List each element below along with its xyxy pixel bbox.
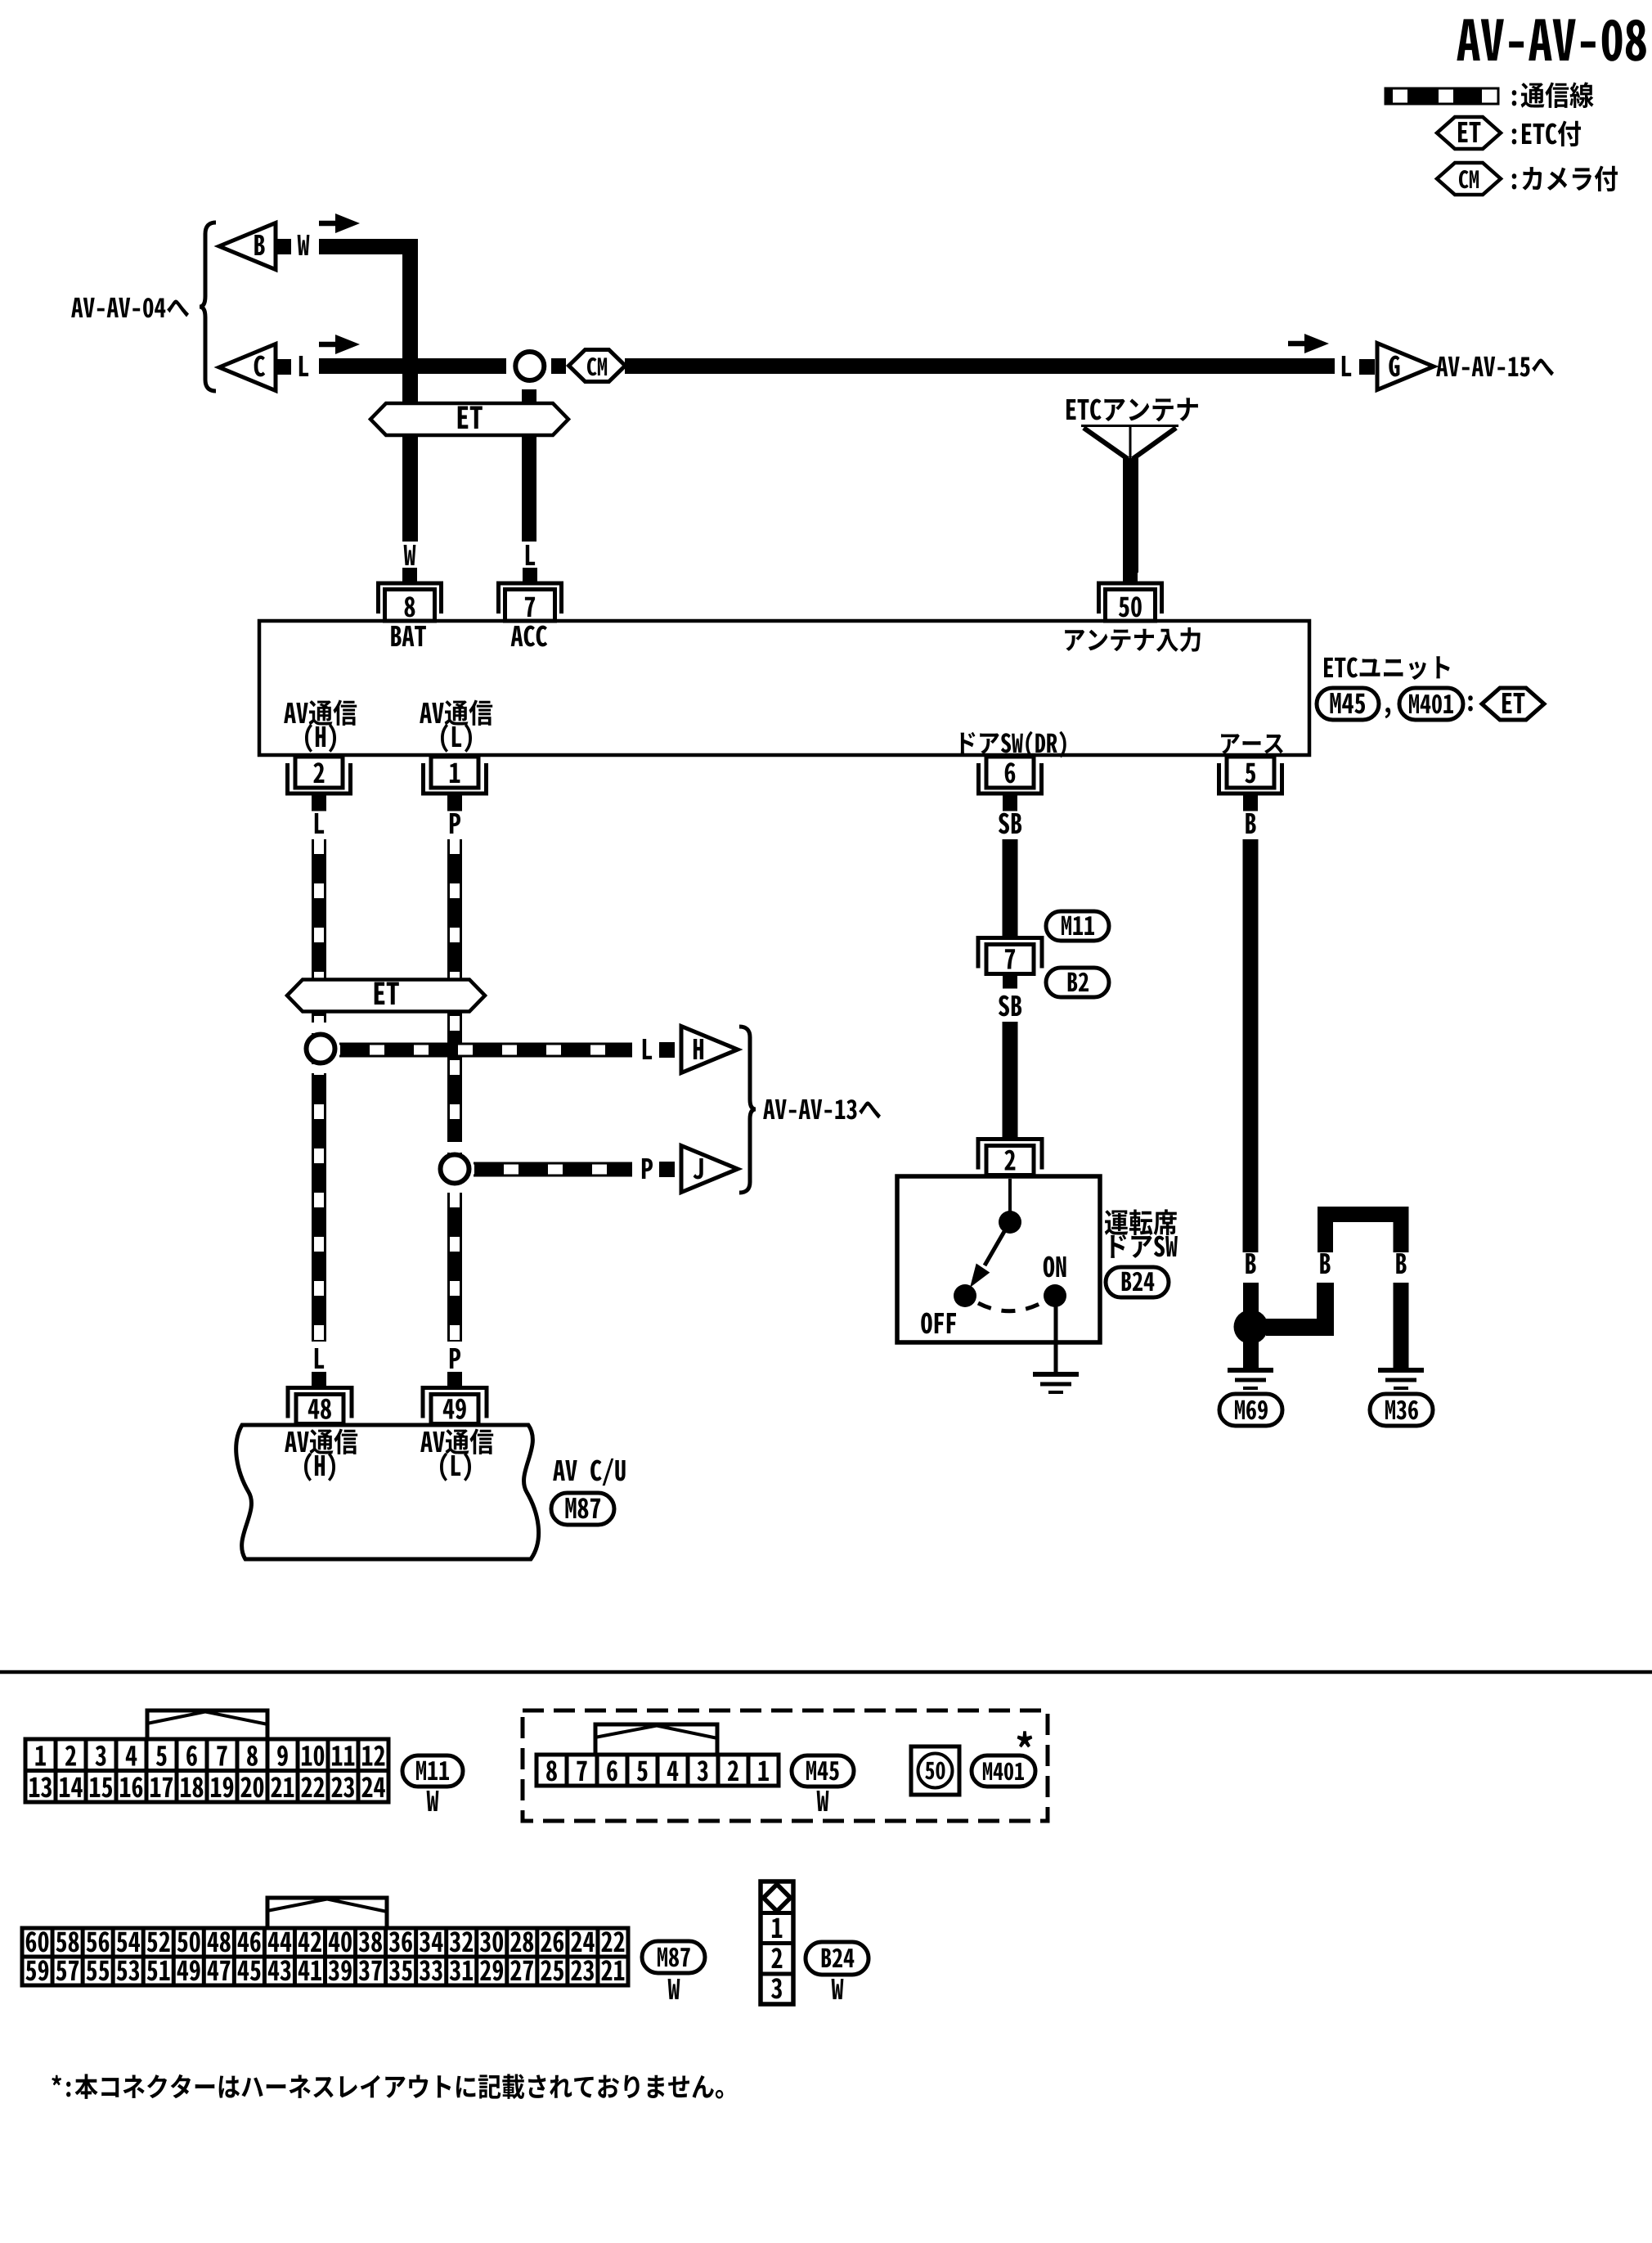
connector ref B2 oval: [1046, 968, 1109, 997]
connector view B24 pin 2: [771, 1948, 782, 1968]
label ETCアンテナ: [1066, 398, 1198, 421]
wire stub at pin 49: [447, 1372, 462, 1387]
wire color label B (pin 5): [1246, 813, 1255, 834]
wire stub at G: [1359, 359, 1375, 375]
wire color label B (left): [1246, 1253, 1255, 1274]
ref M87 oval (view): [642, 1941, 705, 1973]
wire L banner to pin 7: [522, 436, 536, 542]
pin 50 circle (view): [918, 1754, 953, 1788]
wire color label L (branch H): [643, 1039, 652, 1059]
junction circle (camera): [515, 352, 544, 380]
wire W from connector B: [319, 247, 411, 405]
dashed box (ETC option connectors): [523, 1710, 1048, 1821]
connector view M45 tab: [595, 1724, 717, 1755]
junction dot: [1234, 1310, 1268, 1344]
connector ref M45 oval: [1317, 688, 1379, 720]
ground ref M36 oval: [1370, 1394, 1433, 1426]
wire color label B (right): [1396, 1253, 1406, 1274]
connector view M87 tab: [267, 1898, 387, 1928]
ETC antenna symbol: [1081, 426, 1178, 460]
wire color label SB (pin 6): [999, 813, 1021, 834]
label 運転席: [1105, 1209, 1177, 1235]
ground M69: [1228, 1370, 1273, 1388]
connector arrow G: [1377, 344, 1434, 390]
label アンテナ入力: [1065, 627, 1200, 652]
wire B stub to junction dot: [1243, 1283, 1259, 1319]
legend label 通信線: [1512, 82, 1594, 108]
wire color label L (pin 7): [526, 545, 535, 565]
direction arrow (C wire): [319, 335, 360, 354]
connector view M11 tab: [147, 1710, 267, 1739]
legend label カメラ付: [1512, 166, 1618, 192]
label ACC: [511, 626, 548, 647]
wire color label P (pin 49): [450, 1348, 460, 1369]
pin 1 connector: [424, 757, 487, 811]
legend ET hexagon: [1437, 117, 1501, 149]
wire B middle/right branch upper: [1326, 1215, 1402, 1253]
label AV通信(H) (AV C/U): [285, 1429, 357, 1481]
wire stub at pin 48: [312, 1372, 326, 1387]
ETC unit box: [259, 621, 1309, 755]
wire L from connector C to junction: [319, 358, 506, 374]
CM option hexagon on wire: [569, 350, 626, 382]
page number AV-AV-08: [1457, 19, 1645, 61]
comma separator: [1385, 708, 1391, 718]
switch ON contact dot: [1044, 1284, 1066, 1307]
connector view B24 pin 1: [772, 1918, 783, 1938]
label OFF: [921, 1313, 956, 1334]
pin 7 connector: [499, 568, 562, 621]
asterisk marker: [1017, 1731, 1033, 1747]
antenna wire to pin 50: [1123, 458, 1138, 573]
label AV通信(L) (AV C/U): [420, 1429, 493, 1481]
wire stub at B: [276, 239, 291, 254]
pin 49 connector: [423, 1388, 487, 1424]
pin 48 connector: [288, 1388, 352, 1424]
wire stub at H: [659, 1042, 675, 1058]
pin 2 connector: [288, 757, 351, 811]
wire color label W: [298, 235, 310, 255]
connector view M45 row: [536, 1755, 779, 1786]
pin 50 square (view): [911, 1746, 959, 1795]
connector arrow J: [681, 1146, 738, 1193]
driver door switch box: [897, 1176, 1100, 1342]
direction arrow (B wire): [319, 214, 360, 233]
wire stub at J: [659, 1162, 675, 1177]
brace to AV-AV-13: [739, 1027, 756, 1193]
wire segment junction to CM: [551, 358, 566, 374]
wire B middle branch lower: [1266, 1283, 1326, 1328]
inline connector 7: [978, 938, 1042, 989]
wire color label L (pin 48): [315, 1348, 324, 1369]
white gap below junction L: [312, 1064, 326, 1073]
pin 5 connector: [1219, 757, 1282, 811]
wire B junction to ground: [1243, 1333, 1259, 1368]
switch pole wire: [1008, 1179, 1012, 1212]
unit ref M87 oval: [551, 1493, 614, 1525]
branch wire from junction down to ET banner: [522, 389, 536, 409]
comm branch wire to H: [339, 1043, 632, 1058]
pin 6 connector: [979, 757, 1042, 811]
label アース: [1221, 734, 1283, 753]
label AV通信(L) in box: [420, 700, 492, 753]
connector ref M401 oval: [1399, 688, 1463, 720]
connector view B24 body: [761, 1881, 793, 2004]
ET option hexagon (unit): [1482, 688, 1544, 720]
wire B right branch lower: [1394, 1283, 1409, 1370]
pin 50 connector: [1099, 568, 1162, 621]
ET option banner (middle): [287, 980, 485, 1012]
connector ref M11 oval: [1046, 911, 1109, 941]
connector view M87 grid: [22, 1928, 628, 1985]
ground (switch): [1033, 1374, 1079, 1392]
comm wire L (AV comm H): [312, 839, 326, 1342]
connector arrow H: [681, 1027, 738, 1073]
wire color label P (branch J): [642, 1158, 653, 1179]
label ON: [1044, 1256, 1066, 1278]
ref M401 oval (view): [972, 1755, 1035, 1787]
ref M45 oval (view): [792, 1755, 854, 1787]
ground M36: [1378, 1370, 1424, 1388]
label ドアSW(DR): [961, 731, 1066, 758]
connector view B24 key diamond: [764, 1885, 791, 1912]
switch common contact dot: [999, 1211, 1021, 1234]
footnote: [52, 2074, 723, 2099]
connector color W (B24): [832, 1979, 844, 1999]
switch blade with arrowhead: [970, 1229, 1006, 1288]
wire SB upper: [1003, 839, 1018, 936]
wire color label L (pin 2): [315, 813, 324, 834]
junction circle on P wire: [441, 1155, 469, 1184]
legend CM hexagon: [1437, 163, 1501, 195]
connector arrow B: [219, 223, 276, 270]
wire color label B (middle): [1320, 1253, 1330, 1274]
wire W banner to pin 8: [402, 436, 418, 542]
legend communication line sample: [1385, 88, 1498, 104]
brace to AV-AV-04: [200, 223, 216, 391]
wire B from pin 5: [1243, 839, 1259, 1252]
switch OFF contact dot: [954, 1284, 976, 1307]
label AV-AV-04へ: [71, 298, 189, 318]
label ドアSW: [1111, 1234, 1178, 1258]
ref B24 oval (view): [806, 1942, 869, 1975]
ET option banner (top): [370, 403, 568, 435]
switch pin 2 connector: [978, 1139, 1042, 1175]
switch travel dashed arc: [978, 1302, 1043, 1311]
wire color label P (pin 1): [450, 813, 460, 834]
separator line: [0, 1670, 1652, 1674]
label AV通信(H) in box: [284, 700, 357, 753]
colon separator: [1468, 695, 1473, 711]
legend label ETC付: [1512, 121, 1581, 147]
label AV-AV-13へ: [763, 1099, 881, 1120]
comm branch wire to J: [474, 1162, 632, 1177]
white gap below junction P: [447, 1184, 462, 1193]
connector color W (M11): [427, 1791, 439, 1811]
junction circle on L wire: [307, 1035, 335, 1063]
label AV-AV-15へ: [1436, 357, 1554, 377]
ref M11 oval (view): [402, 1755, 463, 1787]
label ETCユニット: [1324, 656, 1450, 680]
pin 8 connector: [379, 568, 442, 621]
white gap above junction L: [312, 1023, 326, 1033]
switch ref B24 oval: [1106, 1267, 1169, 1297]
wire color label W (pin 8): [404, 545, 416, 565]
wire L from CM to connector G: [625, 358, 1335, 374]
wire stub at C: [276, 359, 291, 375]
connector color W (M87): [668, 1979, 680, 1999]
connector color W (M45): [817, 1791, 829, 1811]
label BAT: [391, 626, 426, 646]
wire color label L (G wire): [1342, 356, 1351, 376]
wire color label SB (inline): [999, 996, 1021, 1017]
direction arrow (G wire): [1288, 334, 1329, 353]
connector view M11 grid: [25, 1739, 388, 1802]
ground ref M69 oval: [1219, 1394, 1282, 1426]
wire SB lower: [1003, 1022, 1018, 1137]
wire color label L (C wire): [299, 356, 308, 376]
label AV C/U: [553, 1459, 625, 1486]
comm wire P (AV comm L): [447, 839, 462, 1342]
AV C/U box (partial): [236, 1425, 539, 1559]
switch ground wire: [1054, 1304, 1058, 1374]
connector arrow C: [219, 344, 276, 391]
connector view B24 pin 3: [771, 1978, 782, 1998]
white gap above junction P: [447, 1142, 462, 1153]
